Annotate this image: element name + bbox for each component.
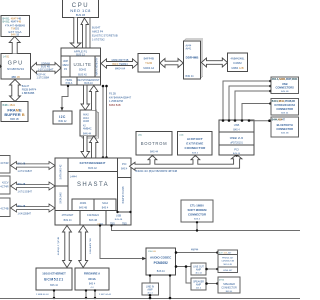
svg-text:B4S 44: B4S 44 bbox=[226, 291, 233, 293]
svg-text:B4S 4: B4S 4 bbox=[89, 284, 96, 286]
svg-text:B4S 4: B4S 4 bbox=[192, 152, 199, 154]
wire codec down right bbox=[169, 275, 171, 299]
wire ethernet out bbox=[53, 290, 55, 299]
wire speaker amp to connector bbox=[206, 283, 218, 285]
wire AV-SHASTA down arrow bbox=[81, 136, 90, 158]
svg-text:CONNECTOR: CONNECTOR bbox=[276, 107, 293, 111]
svg-text:BUFFER B: BUFFER B bbox=[4, 112, 24, 117]
svg-text:AUDIO CODEC: AUDIO CODEC bbox=[150, 256, 172, 260]
svg-text:AV4B: AV4B bbox=[83, 120, 89, 123]
svg-text:B4FF TERM4: B4FF TERM4 bbox=[112, 63, 128, 66]
wire SHASTA-FIREWIRE double arrow bbox=[79, 226, 88, 268]
wire J1-SHASTA sata double arrow bbox=[11, 162, 56, 170]
svg-text:44T 444-44T: 44T 444-44T bbox=[219, 253, 232, 255]
svg-text:L4N4 44T: L4N4 44T bbox=[223, 270, 233, 272]
wire firewire out b bbox=[94, 290, 96, 299]
wire SHASTA-AV up arrow bbox=[90, 136, 99, 158]
svg-text:B4S 44: B4S 44 bbox=[64, 219, 73, 222]
USB CONNECTORS J5 bbox=[271, 77, 299, 94]
wire BUFFER-DIMM double arrow bbox=[160, 59, 183, 68]
svg-text:USB: USB bbox=[282, 82, 288, 86]
svg-text:B4S 44: B4S 44 bbox=[281, 112, 289, 114]
svg-text:2 4MB 44-44: 2 4MB 44-44 bbox=[36, 294, 49, 296]
wire USB port 1 bbox=[223, 81, 271, 120]
svg-text:4DM4: 4DM4 bbox=[80, 202, 87, 205]
wire HCB to I2C bbox=[62, 86, 68, 111]
LINE IN AMP U12 bbox=[142, 283, 159, 295]
svg-text:M4M4 B4TT4B: M4M4 B4TT4B bbox=[112, 59, 129, 62]
svg-text:BUS 13: BUS 13 bbox=[76, 54, 85, 57]
svg-text:4DL 4: 4DL 4 bbox=[196, 288, 202, 290]
svg-text:B4S 4B: B4S 4B bbox=[281, 133, 289, 135]
DIMM slot block bbox=[184, 39, 203, 79]
wire USB port 3 bbox=[235, 91, 271, 120]
wire GPU-FRAMEBUFFER double arrow bbox=[10, 80, 21, 102]
wire codec to amps bbox=[176, 266, 192, 268]
wire CPU to U3LITE down arrow bbox=[70, 18, 81, 49]
svg-text:M4B4 12B: M4B4 12B bbox=[231, 66, 243, 70]
label CPU bus bbox=[92, 26, 118, 42]
svg-text:CONNECTOR: CONNECTOR bbox=[184, 146, 206, 150]
svg-text:B4M44 4CI (B)42.5B/33MHZ 4BT44: B4M44 4CI (B)42.5B/33MHZ 4BT44B bbox=[136, 170, 178, 173]
BLUETOOTH CONNECTOR J7 bbox=[271, 117, 299, 137]
svg-text:BUS 42: BUS 42 bbox=[88, 167, 97, 170]
svg-text:B4S 44: B4S 44 bbox=[233, 153, 241, 155]
svg-text:B4MHZ PCI/4B: B4MHZ PCI/4B bbox=[122, 186, 125, 203]
svg-text:TBD: TBD bbox=[122, 222, 127, 225]
svg-text:B4S 4B: B4S 4B bbox=[79, 207, 88, 210]
wire PCI bus bbox=[130, 155, 242, 171]
south bridge SHASTA U4 bbox=[55, 158, 132, 225]
svg-text:BLUETOOTH: BLUETOOTH bbox=[277, 123, 293, 127]
svg-text:L4444: L4444 bbox=[70, 176, 77, 179]
drive connector J1 bbox=[0, 156, 10, 174]
wire U3LITE-SHASTA pair bbox=[102, 86, 104, 159]
GPU U3 bbox=[1, 54, 31, 80]
svg-text:CTL-1688 /: CTL-1688 / bbox=[190, 204, 204, 208]
label keystone bus bbox=[109, 93, 132, 107]
svg-text:4L4D4(1,2,T)4T4B: 4L4D4(1,2,T)4T4B bbox=[58, 236, 60, 255]
ETHERNET PHY U7 bbox=[36, 268, 72, 290]
svg-text:1-07/1.5GB4T: 1-07/1.5GB4T bbox=[18, 171, 33, 173]
wire U3LITE-BUFFER memory double arrow bbox=[101, 59, 138, 68]
ONBOARD DIMM block bbox=[228, 53, 248, 72]
svg-text:SOFT MODEM: SOFT MODEM bbox=[188, 208, 208, 212]
svg-text:1-07/3T0/2: 1-07/3T0/2 bbox=[92, 38, 105, 42]
wire GPU to TMDS up arrow bbox=[9, 37, 20, 54]
wire codec to combo jack bbox=[176, 252, 219, 254]
svg-text:B4S 4: B4S 4 bbox=[121, 169, 128, 171]
svg-text:SATA B4S: SATA B4S bbox=[60, 192, 63, 204]
wire line in amp to rail bbox=[149, 295, 151, 299]
svg-text:AMC3 P4: AMC3 P4 bbox=[92, 30, 104, 34]
svg-text:B4C4,4B44,4T44B,4B: B4C4,4B44,4T44B,4B bbox=[272, 100, 295, 103]
svg-text:B4S 4B: B4S 4B bbox=[89, 219, 98, 222]
svg-text:B4B 1B: B4B 1B bbox=[10, 118, 19, 121]
svg-text:4P44: 4P44 bbox=[219, 280, 225, 282]
svg-text:AMP: AMP bbox=[196, 284, 202, 287]
svg-text:GPU: GPU bbox=[8, 61, 24, 67]
svg-text:1.25/B4MHZ: 1.25/B4MHZ bbox=[109, 100, 124, 103]
svg-text:4NB4424BL: 4NB4424BL bbox=[231, 57, 246, 61]
svg-text:MAIN MEMORY: MAIN MEMORY bbox=[96, 57, 99, 75]
svg-text:CONNECTORS: CONNECTORS bbox=[275, 86, 294, 90]
LINE OUT AMP U10 bbox=[191, 263, 206, 275]
svg-text:ELASTIC STORETUB: ELASTIC STORETUB bbox=[92, 34, 118, 38]
svg-text:B4S 4B: B4S 4B bbox=[281, 91, 289, 93]
svg-text:B4S.4B: B4S.4B bbox=[18, 206, 26, 208]
svg-text:B4FF4B: B4FF4B bbox=[144, 57, 154, 61]
svg-text:F444 A4P4 T4B: F444 A4P4 T4B bbox=[89, 238, 92, 254]
wire CPU-U3LITE sideband bbox=[89, 18, 91, 49]
svg-text:AMP: AMP bbox=[196, 269, 202, 272]
svg-text:CONNECTOR: CONNECTOR bbox=[221, 287, 237, 290]
svg-text:DDR4MB: DDR4MB bbox=[186, 56, 200, 60]
svg-text:PCI: PCI bbox=[234, 148, 239, 152]
AV connector block bbox=[80, 110, 98, 138]
svg-text:BUS4T: BUS4T bbox=[92, 26, 101, 30]
svg-text:B4S 44: B4S 44 bbox=[150, 151, 159, 154]
svg-text:4MB4C: 4MB4C bbox=[83, 127, 92, 131]
svg-text:42CV: 42CV bbox=[2, 181, 9, 185]
svg-text:B4S 44: B4S 44 bbox=[50, 285, 58, 287]
svg-text:PH4N4 44T: PH4N4 44T bbox=[222, 258, 234, 260]
wire SHASTA-ETHERNET double arrow bbox=[63, 226, 72, 268]
svg-text:4TH42N4T: 4TH42N4T bbox=[62, 214, 74, 217]
wire J2-SHASTA sata double arrow bbox=[11, 182, 56, 190]
svg-text:4CT4R: 4CT4R bbox=[0, 161, 8, 165]
svg-text:4B4-A,N4M4,4B4T,4B44: 4B4-A,N4M4,4B4T,4B44 bbox=[272, 78, 298, 81]
svg-text:I2S4 4B: I2S4 4B bbox=[148, 251, 156, 253]
svg-text:(44): (44) bbox=[180, 134, 184, 136]
svg-text:10/100 ETHERNET: 10/100 ETHERNET bbox=[42, 272, 66, 276]
FRAME BUFFER B block bbox=[1, 102, 28, 122]
svg-text:P3.2B: P3.2B bbox=[109, 93, 116, 96]
svg-text:T42M: T42M bbox=[145, 61, 153, 65]
svg-text:F424W424: F424W424 bbox=[87, 214, 99, 217]
svg-text:1.5T/2.BB4: 1.5T/2.BB4 bbox=[37, 77, 50, 80]
FIREWIRE PHY U8 bbox=[75, 268, 109, 290]
node edge mark bbox=[0, 65, 2, 69]
svg-text:S4A4: S4A4 bbox=[102, 202, 109, 205]
svg-text:B4S 4: B4S 4 bbox=[102, 207, 109, 210]
svg-text:CONNECTOR: CONNECTOR bbox=[188, 213, 206, 217]
svg-text:NEO 1C8: NEO 1C8 bbox=[70, 8, 91, 13]
svg-text:FIREWIRE A: FIREWIRE A bbox=[84, 272, 100, 276]
svg-text:1-07/1.5GB4T: 1-07/1.5GB4T bbox=[38, 69, 54, 72]
svg-text:M4D4 A4: M4D4 A4 bbox=[143, 66, 154, 70]
svg-text:C4NN4CT4B: C4NN4CT4B bbox=[221, 261, 234, 263]
svg-text:2 44P 44-44: 2 44P 44-44 bbox=[99, 294, 112, 296]
svg-text:B4S.4B: B4S.4B bbox=[18, 184, 26, 186]
wire SHASTA USB bus long bbox=[112, 225, 301, 231]
svg-text:B4S 44: B4S 44 bbox=[157, 270, 166, 273]
svg-text:1-07/1.5GB4T: 1-07/1.5GB4T bbox=[18, 191, 33, 193]
svg-text:USB: USB bbox=[116, 214, 122, 218]
wire codec to line in bbox=[149, 275, 151, 283]
svg-text:4CT4R: 4CT4R bbox=[0, 185, 8, 189]
CPU U1 bbox=[63, 0, 99, 18]
svg-text:4CT4B: 4CT4B bbox=[0, 207, 8, 211]
svg-text:K4YB4N4/A42B44T: K4YB4N4/A42B44T bbox=[109, 96, 132, 99]
wire firewire out a bbox=[85, 290, 87, 299]
drive connector J3 bbox=[0, 198, 10, 217]
svg-text:2.BB/B4BB: 2.BB/B4BB bbox=[22, 92, 35, 95]
svg-text:P30 A: P30 A bbox=[66, 82, 73, 85]
svg-text:EXTREME: EXTREME bbox=[186, 142, 203, 146]
MODEM CONNECTOR J8 bbox=[181, 200, 213, 222]
svg-text:PCI: PCI bbox=[122, 162, 127, 166]
svg-text:AMP: AMP bbox=[147, 289, 153, 292]
KEYBOARD HOUSE CONNECTOR J6 bbox=[271, 99, 299, 116]
wire bottom rail bbox=[0, 298, 300, 300]
AIRPORT EXTREME CONNECTOR J4 bbox=[178, 132, 213, 156]
svg-text:D4MM: D4MM bbox=[233, 61, 242, 65]
svg-text:AIRPORT: AIRPORT bbox=[187, 137, 203, 141]
wire J3-SHASTA double arrow bbox=[11, 204, 56, 212]
svg-text:I2C: I2C bbox=[59, 115, 66, 119]
wire USB port 2 bbox=[229, 86, 271, 120]
svg-text:3C4A: 3C4A bbox=[88, 277, 97, 281]
svg-text:B444,4B44T: B444,4B44T bbox=[272, 118, 286, 121]
memory BUFFER block bbox=[138, 54, 160, 73]
BOOTROM U5 bbox=[136, 132, 172, 156]
svg-text:BCM5221: BCM5221 bbox=[44, 278, 63, 282]
wire DIMM-ONBOARD double arrow bbox=[201, 58, 227, 67]
SPEAKER AMP U11 bbox=[191, 278, 206, 290]
svg-text:B4N 1B: B4N 1B bbox=[11, 34, 20, 37]
svg-text:uPD720101: uPD720101 bbox=[230, 141, 243, 144]
memory controller U3LITE U2 bbox=[61, 48, 100, 85]
svg-text:B4S 4B: B4S 4B bbox=[115, 219, 123, 221]
svg-text:AV41: AV41 bbox=[186, 48, 192, 51]
USB 2.0 controller U6 bbox=[219, 120, 254, 155]
TMDS EXT VGA block bbox=[1, 16, 30, 37]
svg-text:B4S 4: B4S 4 bbox=[194, 219, 201, 221]
svg-text:K4YST4N4/42BB44T: K4YST4N4/42BB44T bbox=[80, 161, 106, 165]
svg-text:L4 B1: L4 B1 bbox=[3, 56, 10, 59]
wire U3LITE to CPU up arrow bbox=[81, 18, 89, 48]
COMBO HEADPHONE JACK J9 bbox=[218, 250, 238, 273]
svg-text:CONNECTOR: CONNECTOR bbox=[276, 127, 293, 131]
svg-text:SATA B4S 42: SATA B4S 42 bbox=[60, 164, 63, 180]
svg-text:B4S 4: B4S 4 bbox=[233, 129, 240, 131]
drive connector J2 bbox=[0, 176, 10, 194]
svg-text:B4N 44: B4N 44 bbox=[186, 75, 195, 78]
svg-text:4DL 44: 4DL 44 bbox=[195, 273, 202, 275]
svg-text:B4N 44: B4N 44 bbox=[83, 133, 92, 136]
svg-text:(44): (44) bbox=[138, 134, 142, 136]
svg-text:UDP: UDP bbox=[63, 60, 69, 63]
svg-text:M4D4 A4: M4D4 A4 bbox=[115, 67, 126, 70]
wire modem to bus bbox=[196, 222, 198, 231]
svg-text:K4YB442D H4US4: K4YB442D H4US4 bbox=[274, 104, 295, 107]
svg-text:USB: USB bbox=[234, 123, 240, 127]
SPEAKER CONNECTOR J10 bbox=[218, 277, 240, 293]
svg-text:NV188/NV34: NV188/NV34 bbox=[7, 67, 24, 71]
svg-text:M4D4 4B: M4D4 4B bbox=[224, 264, 233, 266]
svg-text:B4S.4B: B4S.4B bbox=[18, 164, 26, 166]
wire GPU-U3LITE AGP double arrow bbox=[31, 63, 62, 74]
wire USB port 4 bbox=[242, 104, 271, 121]
svg-text:SDH2: SDH2 bbox=[79, 68, 87, 72]
svg-text:B4 B2, 4B4T44B: B4 B2, 4B4T44B bbox=[3, 21, 22, 24]
svg-text:BUS 13: BUS 13 bbox=[84, 82, 93, 85]
wire USB port 5 bbox=[249, 120, 271, 122]
I2C block bbox=[53, 111, 72, 124]
svg-text:SHASTA: SHASTA bbox=[77, 182, 109, 188]
AUDIO CODEC U9 bbox=[146, 248, 176, 275]
wire AV-U3LITE up arrow bbox=[90, 86, 99, 111]
svg-text:USB 2.0: USB 2.0 bbox=[230, 136, 243, 140]
svg-text:1-04/12BB4T: 1-04/12BB4T bbox=[18, 213, 32, 215]
svg-text:BOOTROM: BOOTROM bbox=[141, 141, 168, 146]
svg-text:MEM: MEM bbox=[63, 64, 69, 67]
wire SHASTA USB to audio bbox=[100, 225, 143, 259]
wire lineout amp to combo bbox=[206, 268, 218, 270]
svg-text:4MP44: 4MP44 bbox=[191, 250, 199, 252]
svg-text:U3LITE: U3LITE bbox=[74, 62, 92, 67]
wire U3LITE-AV down arrow bbox=[81, 86, 90, 111]
svg-text:BUS 42: BUS 42 bbox=[78, 74, 87, 77]
svg-text:B4N 42: B4N 42 bbox=[59, 120, 68, 123]
svg-text:4BB 4B: 4BB 4B bbox=[11, 76, 20, 79]
svg-text:PCM3052: PCM3052 bbox=[154, 261, 168, 265]
svg-text:B4B4 B4B: B4B4 B4B bbox=[109, 104, 121, 107]
svg-text:BUS 1B: BUS 1B bbox=[76, 13, 85, 17]
